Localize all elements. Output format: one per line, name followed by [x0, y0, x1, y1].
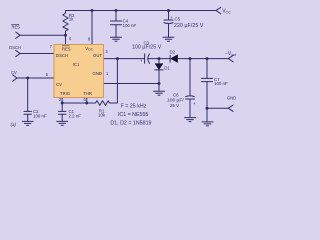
svg-text:220 µF/25 V: 220 µF/25 V: [174, 23, 204, 29]
svg-text:IC1 = NE555: IC1 = NE555: [118, 112, 149, 118]
svg-text:DSCH: DSCH: [9, 45, 21, 50]
svg-text:TRIG: TRIG: [60, 91, 70, 96]
svg-text:(a): (a): [11, 122, 17, 127]
svg-text:D2: D2: [170, 49, 176, 54]
svg-text:2.2 nF: 2.2 nF: [69, 113, 82, 118]
svg-text:100 nF: 100 nF: [214, 81, 228, 86]
svg-text:C6: C6: [173, 92, 179, 97]
svg-text:CV: CV: [11, 70, 17, 75]
svg-text:CV: CV: [56, 82, 62, 87]
svg-text:+: +: [140, 59, 143, 64]
svg-text:RES: RES: [62, 46, 71, 51]
svg-text:100 nF: 100 nF: [123, 23, 137, 28]
svg-text:25 V: 25 V: [170, 103, 179, 108]
svg-text:100 nF: 100 nF: [33, 113, 47, 118]
svg-text:+: +: [193, 101, 196, 106]
svg-text:DSCH: DSCH: [56, 53, 68, 58]
svg-text:IC1: IC1: [73, 62, 80, 67]
svg-text:D1, D2 = 1N5819: D1, D2 = 1N5819: [110, 120, 151, 126]
svg-text:OUT: OUT: [93, 53, 102, 58]
svg-text:GND: GND: [93, 71, 102, 76]
svg-text:1k: 1k: [69, 17, 74, 22]
svg-text:C5: C5: [175, 17, 181, 22]
svg-text:10k: 10k: [98, 112, 106, 117]
svg-text:RES: RES: [12, 25, 21, 30]
svg-text:THR: THR: [83, 91, 92, 96]
svg-text:D1: D1: [164, 65, 170, 70]
svg-text:GND: GND: [227, 95, 236, 100]
svg-text:+: +: [170, 15, 173, 20]
svg-text:F = 25 kHz: F = 25 kHz: [121, 103, 147, 109]
svg-text:100 µF/25 V: 100 µF/25 V: [132, 45, 162, 51]
